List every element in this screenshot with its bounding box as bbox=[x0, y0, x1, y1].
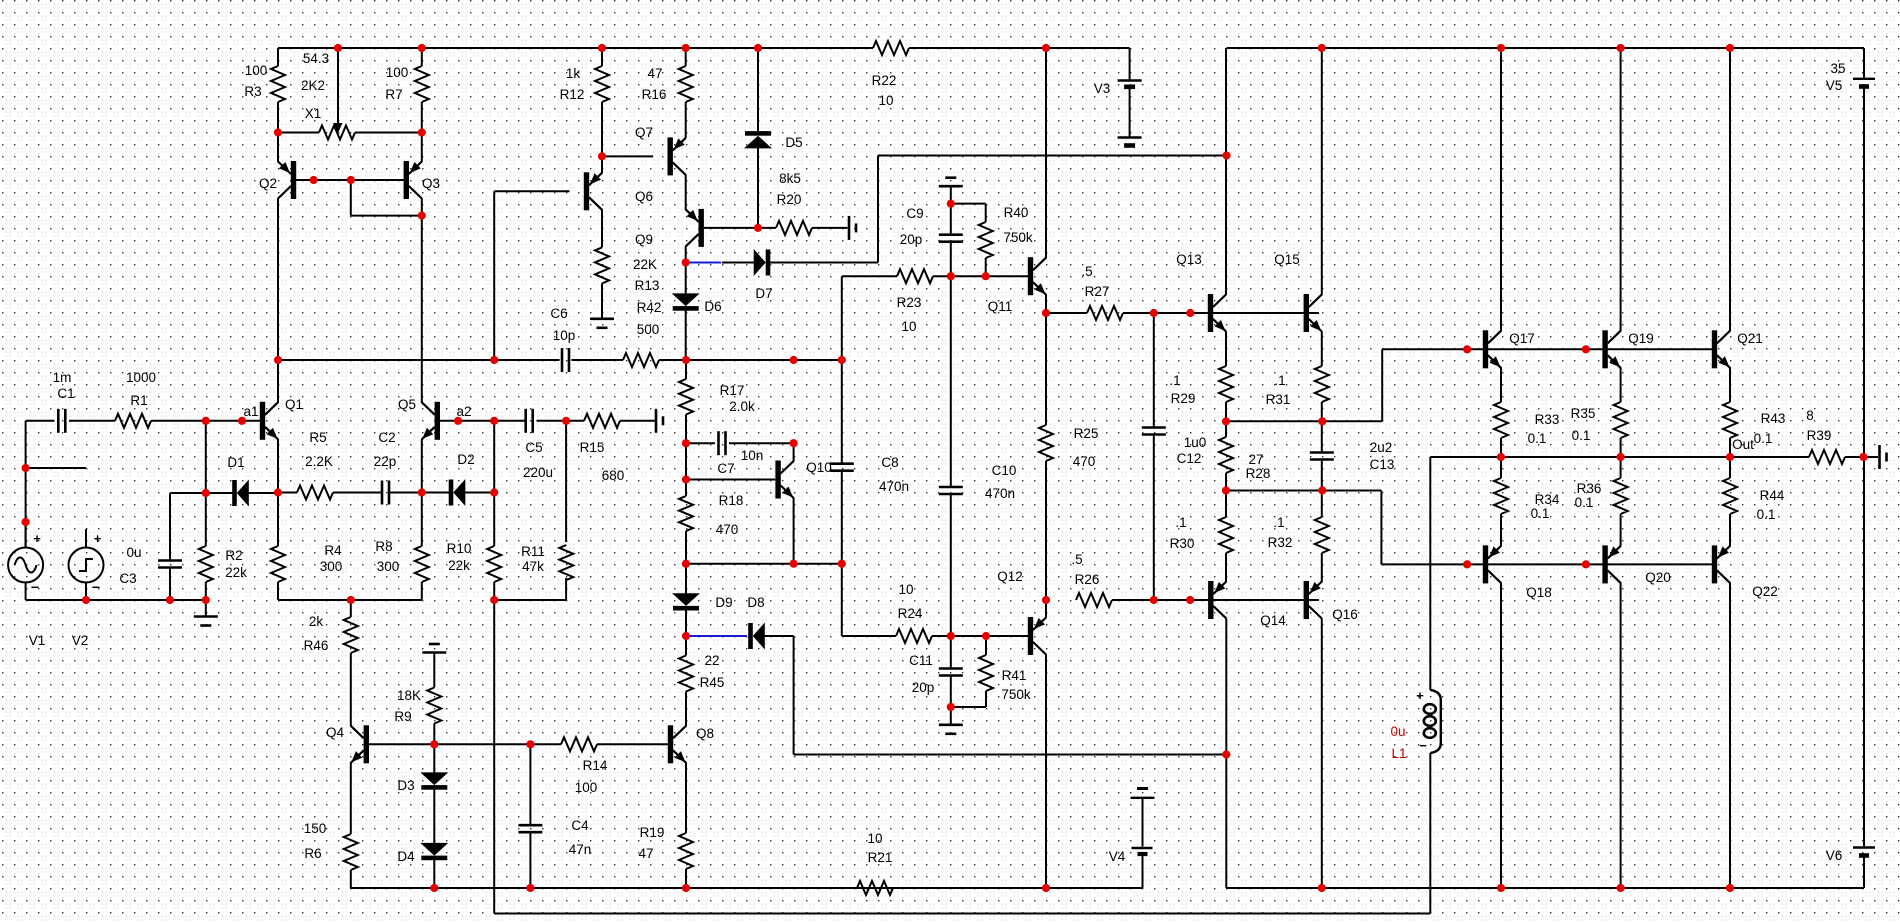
svg-text:Q7: Q7 bbox=[635, 125, 653, 140]
label V2 bbox=[72, 633, 89, 648]
wire R11 top lead bbox=[565, 421, 567, 542]
wire V1 bottom lead bbox=[25, 583, 27, 601]
wire R45 top lead bbox=[685, 636, 687, 656]
capacitor C8 bbox=[830, 464, 854, 471]
wire Q6 base column bbox=[493, 191, 495, 360]
label R29 value bbox=[1169, 373, 1180, 388]
junction out R35 bbox=[1617, 453, 1625, 461]
label R46 value bbox=[309, 614, 324, 629]
svg-text:R32: R32 bbox=[1268, 535, 1293, 550]
transistor Q19 bbox=[1602, 330, 1620, 368]
svg-text:R17: R17 bbox=[720, 383, 745, 398]
resistor R9 bbox=[427, 688, 441, 724]
label R15 bbox=[580, 440, 605, 455]
wire R44 top lead bbox=[1729, 457, 1731, 478]
resistor R22 bbox=[873, 41, 909, 55]
label Q20 bbox=[1645, 570, 1671, 585]
label Q12 bbox=[997, 569, 1023, 584]
voltage source V1 bbox=[8, 522, 43, 595]
svg-text:220u: 220u bbox=[523, 465, 553, 480]
junction Q4 base R9 bbox=[430, 740, 438, 748]
junction Q6 column bbox=[490, 356, 498, 364]
junction Q13 collector wire bbox=[1222, 151, 1230, 159]
capacitor C1 bbox=[58, 409, 65, 433]
resistor R27 bbox=[1087, 306, 1123, 320]
inductor L1 bbox=[1416, 688, 1441, 753]
wire C4 bottom lead bbox=[529, 833, 531, 889]
wire R35 bottom lead bbox=[1620, 438, 1622, 457]
junction Q20 rail bbox=[1617, 884, 1625, 892]
svg-text:Q13: Q13 bbox=[1176, 252, 1202, 267]
svg-text:R22: R22 bbox=[872, 73, 897, 88]
svg-text:R11: R11 bbox=[521, 544, 545, 559]
wire R30 top lead bbox=[1225, 491, 1227, 518]
terminal jack Out bbox=[1880, 445, 1887, 469]
transistor Q7 bbox=[668, 137, 686, 175]
wire Q7 Q9 link bbox=[685, 174, 687, 210]
junction rail Q11 bbox=[1042, 44, 1050, 52]
wire R26 row bbox=[1112, 599, 1319, 601]
wire R25 top lead bbox=[1045, 313, 1047, 425]
wire C12 top lead bbox=[1153, 313, 1155, 428]
svg-text:22k: 22k bbox=[448, 558, 470, 573]
label R20 value bbox=[779, 171, 801, 186]
label R5 value bbox=[305, 454, 333, 469]
diode D6 bbox=[672, 293, 700, 310]
wire R30 bottom lead bbox=[1225, 553, 1227, 583]
svg-text:10n: 10n bbox=[741, 448, 764, 463]
wire Q21 emitter lead bbox=[1729, 367, 1731, 402]
wire L1 top lead bbox=[1429, 457, 1431, 690]
svg-text:Q5: Q5 bbox=[398, 397, 416, 412]
svg-text:C11: C11 bbox=[909, 653, 933, 668]
wire Q3 emitter bbox=[421, 133, 423, 163]
wire vas row bbox=[278, 359, 560, 361]
svg-text:R2: R2 bbox=[225, 548, 242, 563]
svg-text:.1: .1 bbox=[1169, 373, 1180, 388]
svg-text:Q16: Q16 bbox=[1332, 607, 1358, 622]
wire R4 bottom lead bbox=[277, 582, 279, 600]
ground V1 rail bbox=[194, 617, 218, 626]
svg-text:a2: a2 bbox=[456, 404, 471, 419]
label R9 bbox=[394, 709, 411, 724]
wire Q6 collector bbox=[601, 209, 603, 247]
terminal R9 flipped ground bbox=[422, 644, 446, 653]
svg-text:C13: C13 bbox=[1370, 457, 1395, 472]
junction C7 column bbox=[790, 356, 798, 364]
label V5 value bbox=[1830, 61, 1845, 76]
label R40 value bbox=[1003, 230, 1033, 245]
wire C10 bottom lead bbox=[950, 494, 952, 636]
wire Q12 collector bbox=[1045, 654, 1047, 888]
label C3 value bbox=[126, 545, 141, 560]
label C6 value bbox=[553, 328, 576, 343]
wire R28 top lead bbox=[1225, 421, 1227, 437]
wire R11 bottom corner bbox=[494, 599, 566, 601]
terminal jack R15 bbox=[656, 409, 663, 433]
junction Q18 rail bbox=[1497, 884, 1505, 892]
junction C4 rail bbox=[526, 884, 534, 892]
resistor R7 bbox=[415, 66, 429, 102]
wire D2 right lead bbox=[465, 492, 494, 494]
svg-text:0.1: 0.1 bbox=[1531, 506, 1550, 521]
resistor R34 bbox=[1494, 478, 1508, 514]
wire R10 top lead bbox=[493, 421, 495, 493]
junction base row bbox=[1186, 309, 1194, 317]
label V1 bbox=[29, 633, 46, 648]
transistor Q2 bbox=[278, 161, 296, 199]
capacitor C5 bbox=[526, 409, 533, 433]
label R1 bbox=[130, 393, 147, 408]
wire Q16 collector bbox=[1321, 619, 1323, 889]
wire input down bbox=[25, 421, 27, 548]
wire R45 bottom lead bbox=[685, 692, 687, 727]
junction D4 rail bbox=[430, 884, 438, 892]
label C1 value bbox=[53, 370, 72, 385]
wire Q14 collector bbox=[1225, 619, 1227, 889]
wire C8 riser bbox=[841, 276, 843, 360]
battery V5 bbox=[1853, 79, 1875, 87]
wire X1 row right bbox=[355, 132, 422, 134]
svg-text:20p: 20p bbox=[900, 232, 923, 247]
label R23 value bbox=[901, 319, 916, 334]
capacitor C4 bbox=[518, 825, 542, 832]
junction rail Q15 bbox=[1318, 44, 1326, 52]
wire node a1 down bbox=[205, 421, 207, 493]
ground R13 bbox=[590, 319, 614, 328]
wire R15 to jack bbox=[620, 420, 655, 422]
junction Q9 base bbox=[754, 224, 762, 232]
wire C10 top lead bbox=[950, 276, 952, 487]
svg-text:150: 150 bbox=[304, 821, 327, 836]
label R35 bbox=[1571, 406, 1596, 421]
resistor R29 bbox=[1219, 366, 1233, 402]
wire Q20 collector bbox=[1620, 582, 1622, 888]
resistor R3 bbox=[271, 66, 285, 102]
junction X1 left bbox=[274, 128, 282, 136]
wire R41 to C11 bbox=[951, 706, 986, 708]
svg-text:Q14: Q14 bbox=[1260, 613, 1286, 628]
svg-text:1u0: 1u0 bbox=[1184, 435, 1207, 450]
junction Q9 collector bbox=[682, 258, 690, 266]
wire V3 lead bbox=[1129, 48, 1131, 80]
svg-text:2K2: 2K2 bbox=[301, 78, 325, 93]
label R29 bbox=[1171, 391, 1196, 406]
wire bottom rail left bbox=[351, 887, 1143, 889]
label R27 value bbox=[1081, 264, 1092, 279]
wire R46 top lead bbox=[350, 600, 352, 617]
wire V4 bottom lead bbox=[1142, 856, 1144, 889]
wire Q21 collector bbox=[1729, 48, 1731, 331]
wire Q2 collector bbox=[277, 198, 279, 403]
svg-text:18K: 18K bbox=[397, 688, 421, 703]
label C7 value bbox=[741, 448, 764, 463]
label R11 bbox=[521, 544, 545, 559]
label R6 value bbox=[304, 821, 327, 836]
label Q10 bbox=[806, 460, 832, 475]
wire C13 top lead bbox=[1321, 421, 1323, 452]
transistor Q3 bbox=[404, 161, 422, 199]
label R17 bbox=[720, 383, 745, 398]
wire D3 D4 link bbox=[433, 786, 435, 844]
wire out rail bbox=[1430, 456, 1809, 458]
wire R4 R8 bottom row bbox=[278, 599, 422, 601]
junction D9 bottom bbox=[682, 632, 690, 640]
label R43 bbox=[1761, 411, 1786, 426]
svg-text:47k: 47k bbox=[522, 559, 544, 574]
label R2 value bbox=[225, 565, 247, 580]
transistor Q15 bbox=[1304, 294, 1322, 332]
svg-text:R20: R20 bbox=[777, 192, 802, 207]
label R14 value bbox=[575, 780, 598, 795]
wire C12 bottom lead bbox=[1153, 435, 1155, 601]
wire Q13 collector bbox=[1225, 48, 1227, 295]
wire D7 to corner bbox=[766, 262, 878, 264]
resistor R21 bbox=[857, 881, 893, 895]
capacitor C12 bbox=[1142, 428, 1166, 435]
wire R8 bottom lead bbox=[421, 582, 423, 600]
label R1 value bbox=[126, 370, 156, 385]
junction Q5 emitter bbox=[418, 488, 426, 496]
svg-text:D5: D5 bbox=[785, 135, 802, 150]
diode D7 bbox=[754, 249, 771, 276]
wire R41 bottom lead bbox=[985, 691, 987, 707]
capacitor C7 bbox=[719, 431, 726, 455]
label Q18 bbox=[1526, 585, 1552, 600]
wire C7 right lead bbox=[729, 442, 794, 444]
wire D4 bottom lead bbox=[433, 856, 435, 888]
label R34 bbox=[1535, 492, 1560, 507]
wire R12 top lead bbox=[601, 48, 603, 66]
svg-text:8k5: 8k5 bbox=[779, 171, 801, 186]
junction D8 Q14 bbox=[1222, 750, 1230, 758]
wire Q1 emitter bbox=[277, 439, 279, 493]
wire R33 bottom lead bbox=[1500, 438, 1502, 457]
junction out V rail bbox=[1859, 453, 1867, 461]
capacitor C10 bbox=[939, 487, 963, 494]
label C5 bbox=[525, 440, 542, 455]
label R19 bbox=[640, 825, 665, 840]
resistor R17 bbox=[679, 379, 693, 415]
wire C11 top lead bbox=[950, 636, 952, 669]
wire input row bbox=[26, 420, 55, 422]
label R2 bbox=[225, 548, 242, 563]
svg-text:R9: R9 bbox=[394, 709, 411, 724]
label R25 bbox=[1074, 426, 1099, 441]
label R27 bbox=[1085, 284, 1110, 299]
label R8 bbox=[375, 539, 392, 554]
wire R12 bottom lead bbox=[601, 102, 603, 156]
label R30 bbox=[1170, 536, 1195, 551]
wire R39 to V rail bbox=[1845, 456, 1864, 458]
junction C12 bottom bbox=[1150, 596, 1158, 604]
transistor Q11 bbox=[1028, 257, 1046, 295]
wire R41 top lead bbox=[985, 636, 987, 655]
svg-text:D7: D7 bbox=[755, 286, 772, 301]
svg-text:R8: R8 bbox=[375, 539, 392, 554]
junction C12 top bbox=[1150, 309, 1158, 317]
wire mid row right bbox=[686, 359, 842, 361]
node a1 bbox=[238, 417, 246, 425]
junction out R33 bbox=[1497, 453, 1505, 461]
wire R11 bottom lead bbox=[565, 578, 567, 600]
capacitor C9 bbox=[939, 235, 963, 242]
wire V2 stub bbox=[26, 467, 86, 469]
resistor R28 bbox=[1219, 437, 1233, 473]
junction D2 R10 bbox=[490, 488, 498, 496]
svg-text:R41: R41 bbox=[1002, 668, 1027, 683]
wire C13 bottom lead bbox=[1321, 460, 1323, 491]
resistor R10 bbox=[487, 546, 501, 582]
wire R21 left bbox=[856, 887, 858, 889]
wire R6 bottom lead bbox=[350, 870, 352, 888]
label D5 bbox=[785, 135, 802, 150]
label R22 value bbox=[878, 93, 893, 108]
label R41 value bbox=[1001, 687, 1031, 702]
junction Q11 emitter bbox=[1042, 309, 1050, 317]
wire R5 to C2 bbox=[333, 492, 382, 494]
svg-text:X1: X1 bbox=[305, 106, 322, 121]
label Q22 bbox=[1752, 584, 1778, 599]
wire R17 bottom lead bbox=[685, 415, 687, 444]
svg-text:Out: Out bbox=[1732, 437, 1754, 452]
label Q5 bbox=[398, 397, 416, 412]
label node a1 bbox=[243, 404, 258, 419]
label C10 value bbox=[985, 486, 1015, 501]
svg-text:R33: R33 bbox=[1535, 412, 1560, 427]
junction Q18 base rail bbox=[1463, 560, 1471, 568]
wire Q7 base bbox=[602, 155, 653, 157]
resistor R1 bbox=[115, 414, 151, 428]
transistor Q6 bbox=[584, 172, 602, 210]
junction rail X1 bbox=[334, 44, 342, 52]
wire D2 left lead bbox=[422, 492, 450, 494]
wire R10 bottom lead bbox=[493, 582, 495, 600]
wire top rail left bbox=[278, 47, 873, 49]
wire out to jack bbox=[1864, 456, 1879, 458]
wire R2 lead bbox=[205, 493, 207, 546]
svg-text:R27: R27 bbox=[1085, 284, 1110, 299]
label R36 value bbox=[1575, 495, 1594, 510]
junction C4 top bbox=[526, 740, 534, 748]
label R6 bbox=[304, 846, 321, 861]
svg-text:D4: D4 bbox=[397, 849, 415, 864]
svg-text:Q11: Q11 bbox=[988, 299, 1013, 314]
junction V1 stub bbox=[22, 464, 30, 472]
svg-text:35: 35 bbox=[1830, 61, 1845, 76]
wire right supply rail bbox=[1863, 88, 1865, 846]
svg-text:D2: D2 bbox=[457, 452, 474, 467]
svg-text:54.3: 54.3 bbox=[303, 51, 329, 66]
wire R17 top lead bbox=[685, 360, 687, 379]
svg-text:Q3: Q3 bbox=[422, 176, 440, 191]
wire L1 bottom lead bbox=[1429, 753, 1431, 914]
svg-text:.1: .1 bbox=[1273, 515, 1284, 530]
label V3 bbox=[1094, 81, 1111, 96]
resistor R24 bbox=[896, 629, 932, 643]
wire R28 bottom lead bbox=[1225, 473, 1227, 491]
svg-text:R46: R46 bbox=[304, 638, 329, 653]
wire C5 to R15 bbox=[537, 420, 585, 422]
resistor R40 bbox=[979, 222, 993, 258]
junction rail R16 bbox=[682, 44, 690, 52]
label C4 value bbox=[569, 842, 592, 857]
label L1 value bbox=[1390, 724, 1405, 739]
wire Q3 base jog horizontal bbox=[351, 215, 422, 217]
svg-text:R10: R10 bbox=[447, 541, 472, 556]
label D8 bbox=[747, 595, 764, 610]
svg-text:−: − bbox=[92, 579, 100, 595]
svg-text:R43: R43 bbox=[1761, 411, 1786, 426]
label R35 value bbox=[1572, 428, 1591, 443]
svg-text:20p: 20p bbox=[912, 680, 935, 695]
svg-text:100: 100 bbox=[575, 780, 598, 795]
wire Q8 emitter lead bbox=[685, 762, 687, 833]
label V6 bbox=[1826, 848, 1843, 863]
wire C6 to R42 bbox=[571, 359, 623, 361]
label C8 value bbox=[879, 479, 909, 494]
svg-text:R31: R31 bbox=[1266, 392, 1291, 407]
transistor Q22 bbox=[1712, 545, 1730, 583]
svg-text:22: 22 bbox=[704, 653, 719, 668]
label Q17 bbox=[1509, 331, 1535, 346]
diode D1 bbox=[232, 480, 249, 507]
wire ground stem bbox=[205, 600, 207, 617]
ground C11 bbox=[939, 725, 963, 734]
label R44 bbox=[1760, 488, 1785, 503]
label C11 value bbox=[912, 680, 935, 695]
junction vas left bbox=[274, 356, 282, 364]
resistor R35 bbox=[1614, 402, 1628, 438]
svg-text:V1: V1 bbox=[29, 633, 46, 648]
wire R24 left lead bbox=[842, 635, 896, 637]
svg-text:R16: R16 bbox=[642, 87, 667, 102]
junction C7 left bbox=[682, 439, 690, 447]
junction X1 right bbox=[418, 128, 426, 136]
wire C7 left lead bbox=[686, 442, 715, 444]
wire C3 top corner bbox=[170, 492, 206, 494]
label Q21 bbox=[1737, 331, 1763, 346]
label R13 bbox=[635, 278, 660, 293]
label R32 value bbox=[1273, 515, 1284, 530]
svg-text:500: 500 bbox=[637, 322, 660, 337]
svg-text:V2: V2 bbox=[72, 633, 89, 648]
svg-text:C6: C6 bbox=[550, 306, 567, 321]
wire C11 bottom lead bbox=[950, 676, 952, 708]
junction Q16 rail bbox=[1318, 884, 1326, 892]
wire Q11 collector bbox=[1045, 48, 1047, 258]
wire X1 wiper arrow bbox=[334, 48, 343, 133]
svg-text:750k: 750k bbox=[1003, 230, 1033, 245]
svg-text:10: 10 bbox=[901, 319, 916, 334]
resistor R41 bbox=[979, 655, 993, 691]
svg-text:R28: R28 bbox=[1246, 466, 1271, 481]
svg-text:C2: C2 bbox=[378, 430, 395, 445]
wire D5 top lead bbox=[757, 48, 759, 132]
svg-text:Q15: Q15 bbox=[1274, 252, 1300, 267]
terminal C9 flipped ground bbox=[939, 178, 963, 187]
label R24 value bbox=[898, 582, 913, 597]
svg-text:R4: R4 bbox=[324, 543, 342, 558]
label R31 bbox=[1266, 392, 1291, 407]
junction R2 ground bbox=[202, 596, 210, 604]
wire D1 left lead bbox=[206, 492, 233, 494]
svg-text:V6: V6 bbox=[1826, 848, 1843, 863]
label R32 bbox=[1268, 535, 1293, 550]
label R7 value bbox=[386, 65, 409, 80]
label node Out bbox=[1732, 437, 1754, 452]
wire R9 terminal stem bbox=[433, 653, 435, 688]
